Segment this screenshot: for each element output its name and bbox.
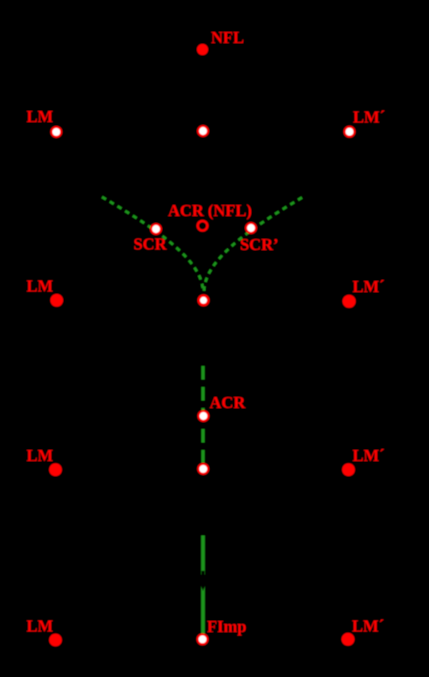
node LM row2 left (open circle): [51, 127, 61, 137]
node ACR middle (open circle): [198, 411, 208, 421]
node SCR (open circle): [151, 224, 161, 234]
node LM' row3 right (filled dot): [343, 295, 356, 308]
node ACR(NFL) (open ring, black center): [198, 221, 208, 231]
node LM' row5 right (filled dot): [342, 633, 355, 646]
svg-text:LM´: LM´: [352, 617, 384, 636]
wire vertical dashed line: [201, 366, 204, 463]
node LM' row4 right (filled dot): [342, 463, 355, 476]
svg-text:ACR: ACR: [210, 393, 247, 412]
svg-text:FImp: FImp: [207, 617, 246, 636]
arrowhead notch (black wedge) on lower segment: [201, 586, 205, 592]
arrow tail notch (black) on upper segment: [202, 571, 205, 575]
wire right dashed curve (funnel branch): [204, 198, 302, 293]
svg-text:NFL: NFL: [211, 28, 244, 47]
node center row4 (open circle): [198, 464, 208, 474]
node LM row5 left (filled dot): [49, 634, 62, 647]
wire solid green line upper segment: [201, 536, 205, 575]
wire solid green line lower segment: [201, 586, 205, 634]
svg-text:LM: LM: [27, 107, 54, 126]
svg-text:LM´: LM´: [353, 446, 385, 465]
node NFL (filled dot): [197, 44, 208, 55]
svg-text:LM: LM: [27, 617, 54, 636]
node LM row4 left (filled dot): [49, 463, 62, 476]
node funnel bottom (open circle): [199, 296, 209, 306]
svg-text:ACR (NFL): ACR (NFL): [168, 201, 252, 220]
wire left dashed curve (funnel branch): [102, 197, 203, 292]
svg-text:SCR: SCR: [134, 235, 168, 254]
node FImp (open circle): [198, 634, 208, 644]
node LM' row2 right (open circle): [345, 127, 355, 137]
svg-text:LM: LM: [27, 277, 54, 296]
svg-text:LM´: LM´: [353, 277, 385, 296]
svg-text:SCR’: SCR’: [240, 235, 279, 254]
node center row2 (open circle): [198, 126, 208, 136]
svg-text:LM´: LM´: [353, 108, 385, 127]
svg-text:LM: LM: [27, 446, 54, 465]
node LM row3 left (filled dot): [50, 294, 63, 307]
node SCR' (open circle): [246, 223, 256, 233]
